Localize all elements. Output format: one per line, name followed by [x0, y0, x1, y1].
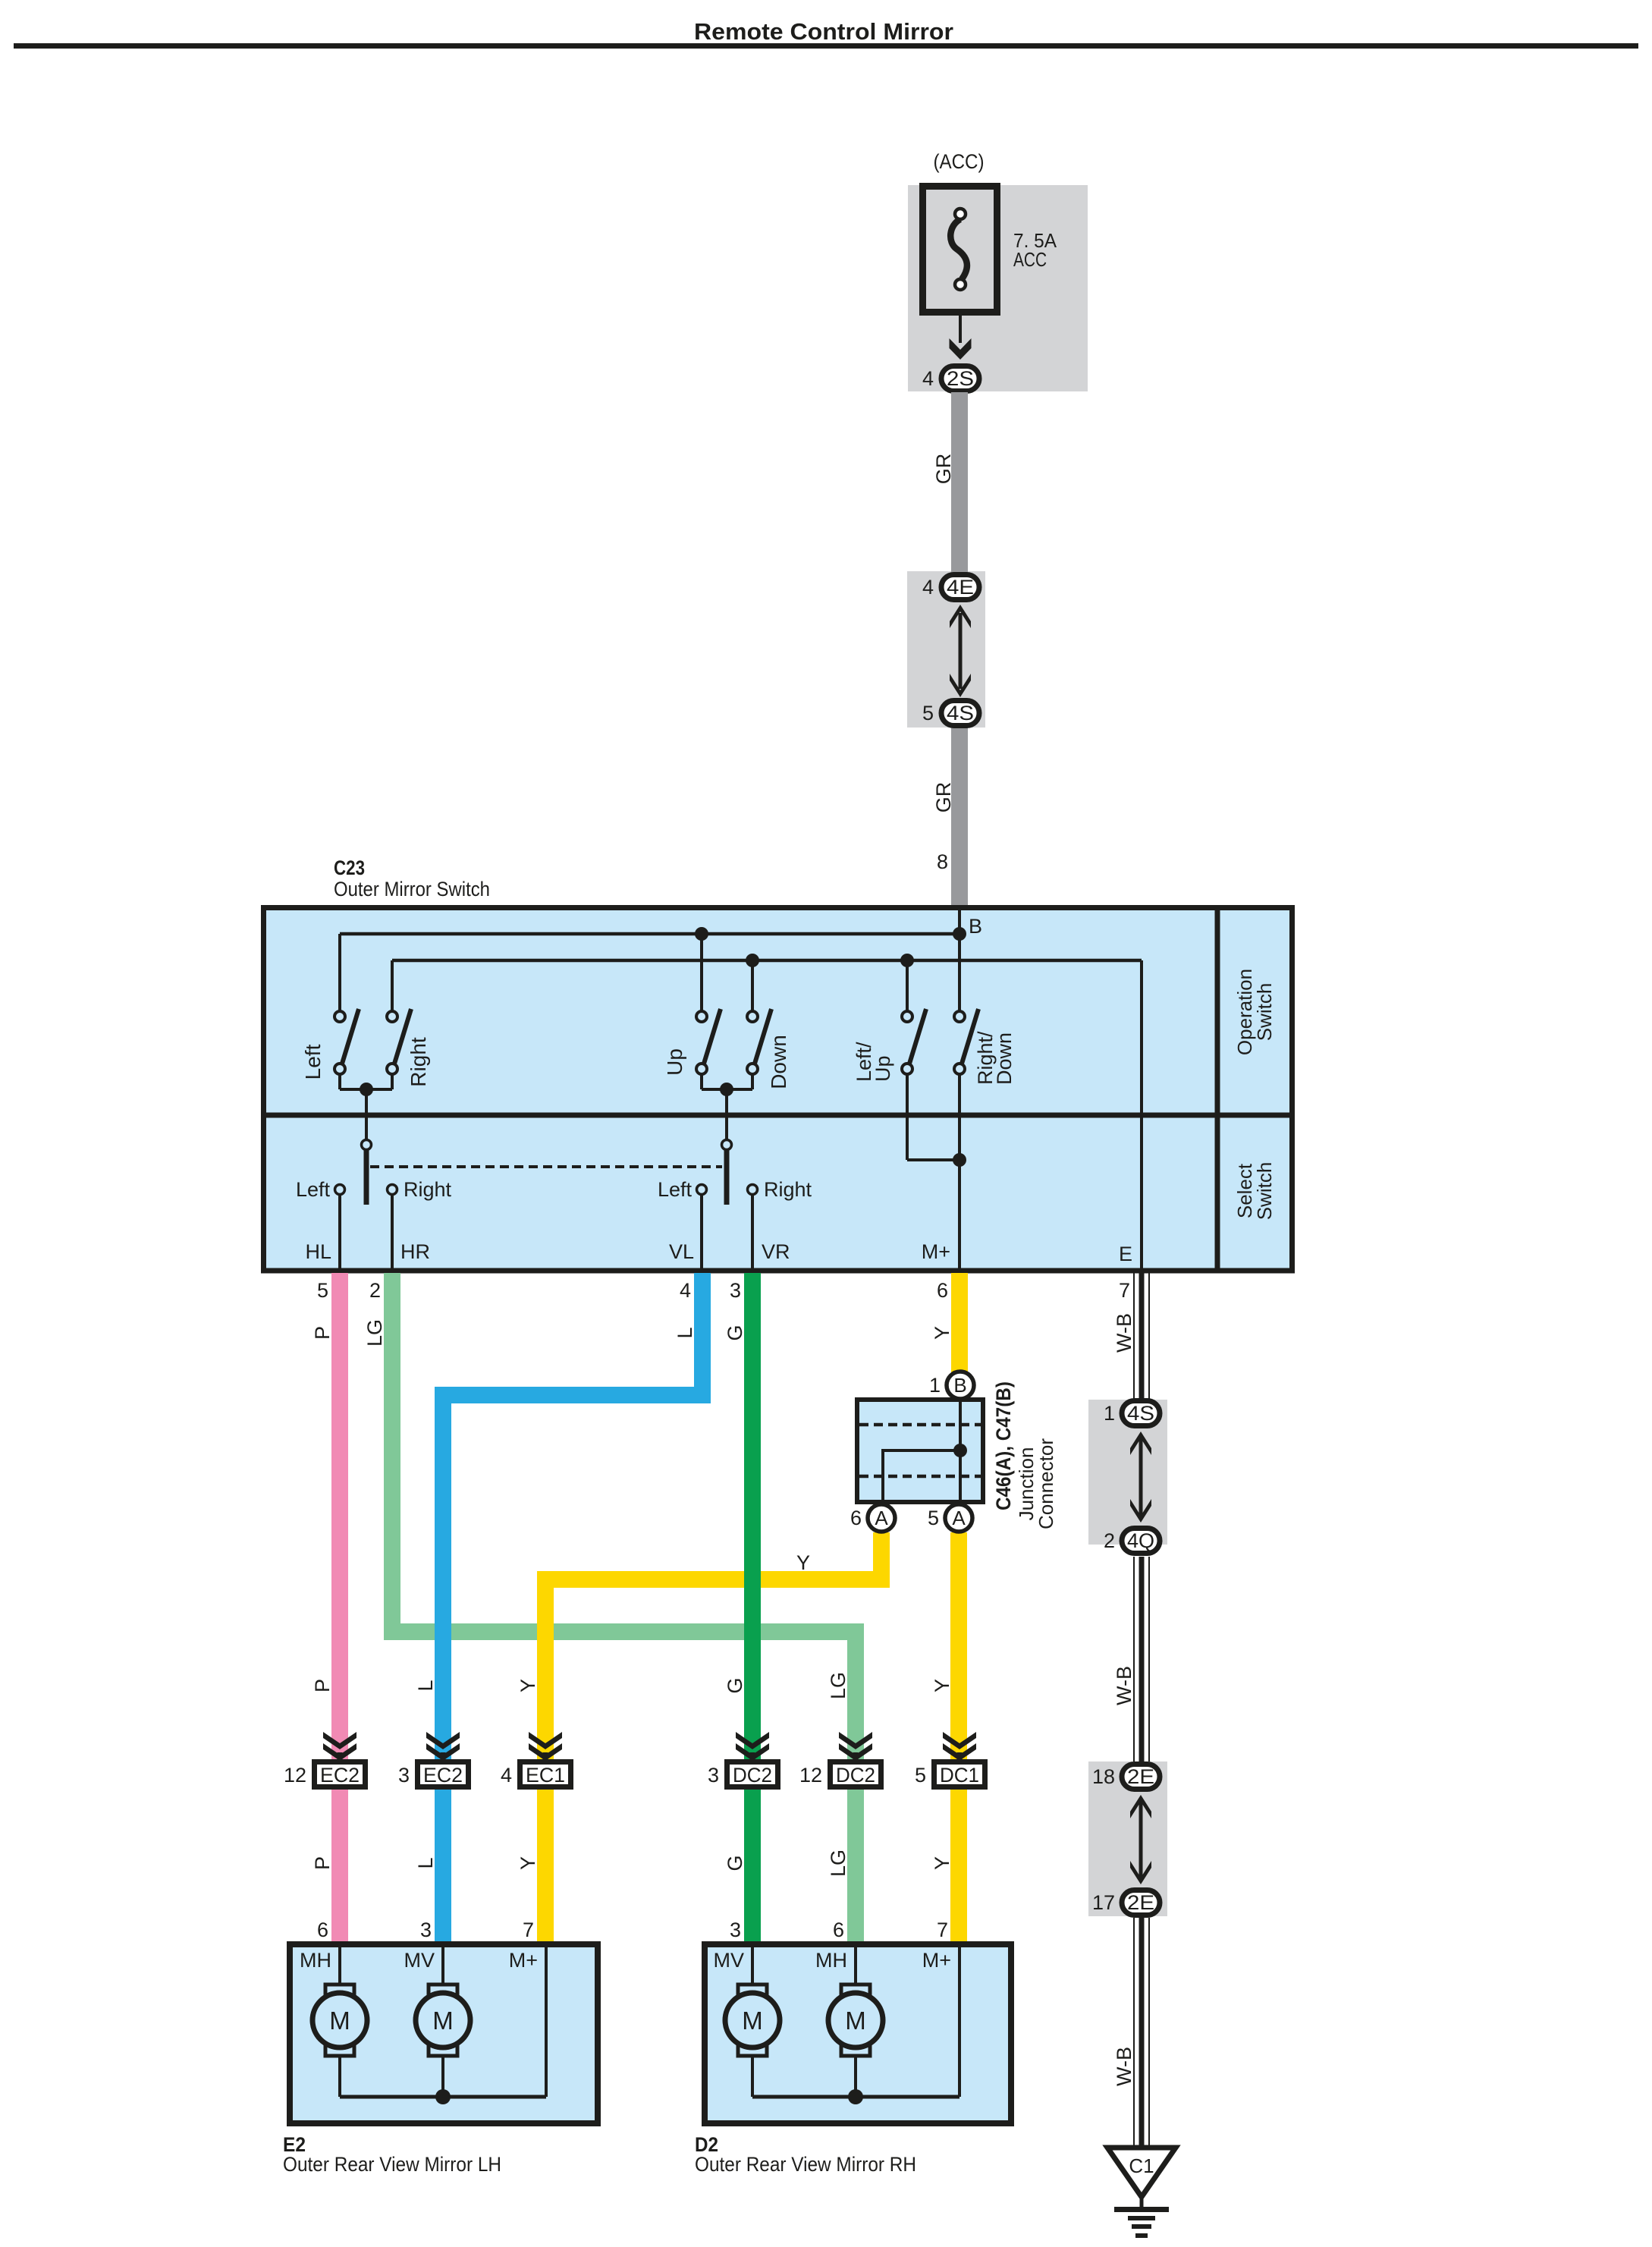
svg-text:ACC: ACC [1013, 248, 1047, 271]
svg-text:W-B: W-B [1113, 1313, 1135, 1353]
svg-text:EC1: EC1 [526, 1764, 565, 1787]
svg-text:Right/Down: Right/Down [974, 1031, 1016, 1085]
svg-text:(ACC): (ACC) [934, 150, 985, 173]
svg-text:5: 5 [915, 1764, 926, 1787]
svg-text:Down: Down [767, 1035, 790, 1089]
svg-text:2E: 2E [1127, 1891, 1154, 1914]
svg-text:3: 3 [708, 1764, 719, 1787]
svg-text:Up: Up [663, 1048, 686, 1076]
svg-text:M: M [432, 2007, 454, 2035]
svg-text:4: 4 [501, 1764, 512, 1787]
svg-text:12: 12 [284, 1764, 306, 1787]
svg-text:MV: MV [404, 1949, 435, 1972]
svg-text:1: 1 [1104, 1402, 1115, 1425]
svg-text:HL: HL [305, 1240, 331, 1263]
svg-text:12: 12 [799, 1764, 822, 1787]
svg-text:Outer Rear View Mirror LH: Outer Rear View Mirror LH [283, 2153, 501, 2176]
svg-text:LG: LG [363, 1319, 386, 1347]
svg-text:3: 3 [730, 1919, 741, 1941]
svg-text:A: A [952, 1507, 966, 1529]
svg-text:3: 3 [730, 1279, 741, 1302]
svg-text:W-B: W-B [1113, 1666, 1135, 1705]
svg-text:GR: GR [932, 454, 955, 485]
svg-text:Outer Mirror Switch: Outer Mirror Switch [334, 878, 490, 900]
svg-text:4: 4 [680, 1279, 691, 1302]
svg-text:DC2: DC2 [836, 1764, 875, 1787]
svg-text:Remote Control Mirror: Remote Control Mirror [694, 18, 953, 45]
svg-text:C46(A), C47(B): C46(A), C47(B) [992, 1381, 1015, 1510]
svg-text:3: 3 [398, 1764, 410, 1787]
svg-text:C1: C1 [1129, 2154, 1154, 2177]
svg-text:17: 17 [1092, 1891, 1115, 1914]
svg-text:LG: LG [827, 1672, 850, 1699]
svg-text:6: 6 [317, 1919, 328, 1941]
svg-text:Right: Right [404, 1178, 452, 1201]
svg-text:7: 7 [523, 1919, 534, 1941]
svg-text:4E: 4E [947, 576, 974, 599]
svg-text:EC2: EC2 [423, 1764, 463, 1787]
svg-text:MH: MH [300, 1949, 331, 1972]
svg-text:B: B [969, 915, 982, 938]
svg-text:P: P [311, 1679, 334, 1692]
svg-text:Y: Y [796, 1551, 810, 1574]
svg-text:SelectSwitch: SelectSwitch [1233, 1162, 1276, 1221]
svg-text:6: 6 [833, 1919, 844, 1941]
svg-text:B: B [953, 1374, 966, 1397]
svg-text:3: 3 [420, 1919, 432, 1941]
svg-text:MH: MH [815, 1949, 847, 1972]
svg-text:G: G [724, 1855, 746, 1871]
svg-text:GR: GR [932, 782, 955, 813]
svg-text:M+: M+ [922, 1949, 951, 1972]
svg-text:Left: Left [301, 1044, 325, 1080]
svg-text:6: 6 [937, 1279, 948, 1302]
svg-text:DC1: DC1 [940, 1764, 979, 1787]
svg-text:7: 7 [937, 1919, 948, 1941]
svg-text:G: G [724, 1677, 746, 1693]
svg-text:2S: 2S [947, 367, 974, 390]
svg-text:MV: MV [714, 1949, 745, 1972]
svg-text:Y: Y [931, 1326, 953, 1340]
svg-text:JunctionConnector: JunctionConnector [1015, 1438, 1057, 1529]
svg-text:5: 5 [928, 1507, 939, 1529]
svg-text:VR: VR [762, 1240, 790, 1263]
svg-text:1: 1 [929, 1374, 941, 1397]
svg-text:Outer Rear View Mirror RH: Outer Rear View Mirror RH [695, 2153, 916, 2176]
svg-text:M+: M+ [509, 1949, 538, 1972]
svg-text:L: L [674, 1327, 696, 1338]
svg-text:5: 5 [922, 702, 934, 724]
svg-text:G: G [724, 1325, 746, 1340]
svg-text:E: E [1119, 1243, 1132, 1265]
svg-text:M+: M+ [922, 1240, 950, 1263]
svg-text:VL: VL [669, 1240, 694, 1263]
svg-text:Right: Right [407, 1037, 430, 1087]
svg-text:Y: Y [931, 1856, 953, 1870]
svg-text:P: P [311, 1856, 334, 1870]
svg-text:HR: HR [400, 1240, 430, 1263]
svg-text:DC2: DC2 [733, 1764, 772, 1787]
svg-text:L: L [414, 1857, 437, 1868]
svg-text:Y: Y [517, 1679, 539, 1692]
svg-text:Left: Left [296, 1178, 331, 1201]
svg-text:L: L [414, 1680, 437, 1691]
svg-text:7: 7 [1119, 1279, 1130, 1302]
svg-text:M: M [329, 2007, 350, 2035]
svg-text:LG: LG [827, 1849, 850, 1877]
svg-text:EC2: EC2 [320, 1764, 360, 1787]
svg-text:2: 2 [369, 1279, 381, 1302]
svg-text:5: 5 [317, 1279, 328, 1302]
svg-text:8: 8 [937, 850, 948, 873]
svg-text:Y: Y [517, 1856, 539, 1870]
svg-text:4Q: 4Q [1127, 1529, 1154, 1552]
svg-text:4S: 4S [947, 702, 974, 724]
svg-text:M: M [742, 2007, 763, 2035]
svg-text:18: 18 [1092, 1765, 1115, 1788]
svg-text:4: 4 [922, 367, 934, 390]
svg-text:4: 4 [922, 576, 934, 599]
svg-text:6: 6 [850, 1507, 862, 1529]
svg-text:M: M [845, 2007, 866, 2035]
svg-text:2E: 2E [1127, 1765, 1154, 1788]
svg-text:4S: 4S [1127, 1402, 1154, 1425]
svg-text:W-B: W-B [1113, 2047, 1135, 2086]
svg-text:Y: Y [931, 1679, 953, 1692]
svg-text:A: A [875, 1507, 888, 1529]
svg-text:Right: Right [764, 1178, 812, 1201]
svg-text:2: 2 [1104, 1529, 1115, 1552]
svg-text:C23: C23 [334, 856, 365, 879]
svg-text:Left: Left [658, 1178, 693, 1201]
svg-text:P: P [311, 1326, 334, 1340]
